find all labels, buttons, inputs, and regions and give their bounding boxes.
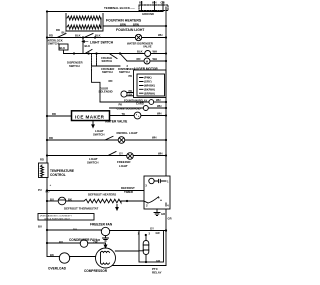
svg-text:LIGHT SWITCH: LIGHT SWITCH [90, 41, 114, 45]
node refrig left [46, 139, 48, 141]
wire fountain light row [47, 37, 135, 39]
svg-text:WH: WH [157, 112, 162, 116]
wire auger row [120, 54, 127, 62]
connector block [59, 44, 68, 50]
ground freezer fan [103, 236, 109, 241]
svg-text:BLK: BLK [85, 44, 91, 48]
svg-text:BK: BK [50, 253, 54, 257]
svg-text:GY: GY [119, 151, 123, 155]
resistor fountain heater 2 [67, 25, 101, 29]
wire lamp to bus [142, 37, 166, 39]
node cube bus [165, 107, 167, 109]
svg-text:WH: WH [156, 98, 161, 102]
node defrost feed [46, 189, 48, 191]
thermostat temperature control [41, 165, 44, 177]
arrow compressor feed [104, 243, 107, 248]
wire heater common [100, 18, 102, 27]
svg-text:BU: BU [59, 240, 63, 244]
svg-text:RD: RD [56, 28, 60, 32]
node freezer bus [165, 154, 167, 156]
svg-text:BU: BU [50, 197, 54, 201]
svg-text:WATER VALVE: WATER VALVE [105, 120, 127, 124]
svg-text:FOUNTAIN HEATERS: FOUNTAIN HEATERS [106, 19, 142, 23]
svg-text:GR: GR [156, 259, 160, 263]
node heater end [126, 200, 128, 202]
switch crusher blade [110, 54, 117, 59]
solenoid fountain [149, 100, 154, 105]
svg-text:CARD: CARD [136, 101, 144, 105]
node condenser [46, 242, 48, 244]
svg-text:BRN: BRN [133, 22, 139, 26]
arrow plug down [92, 122, 94, 128]
wire drop to dispenser row [82, 38, 84, 54]
svg-text:GR: GR [161, 212, 165, 216]
svg-text:TK: TK [122, 112, 126, 116]
temperature control box [39, 163, 49, 178]
wire supply stub GN [162, 2, 164, 12]
svg-text:BK: BK [129, 93, 133, 97]
svg-text:SWITCH: SWITCH [102, 70, 113, 74]
node dispenser a [73, 52, 75, 54]
dispenser switch block outer box [134, 70, 167, 98]
wire solenoid to block [127, 93, 133, 96]
svg-text:BLK: BLK [95, 34, 101, 38]
node auger bus [165, 60, 167, 62]
node dispenser b [95, 52, 97, 54]
svg-text:RD: RD [49, 34, 53, 38]
dashed linkage 2 [96, 54, 98, 66]
svg-text:(BK/WH): (BK/WH) [144, 87, 155, 91]
wire right bus [165, 7, 167, 266]
svg-text:SWITCH: SWITCH [87, 161, 98, 165]
wire cube row from box [110, 107, 144, 109]
thermostat defrost bimetal [58, 197, 66, 205]
svg-text:WH: WH [153, 49, 158, 53]
timer motor [149, 178, 154, 183]
svg-text:FREEZER FAN: FREEZER FAN [90, 222, 113, 226]
motor condenser fan [80, 240, 88, 248]
svg-text:ICE MAKER: ICE MAKER [75, 115, 105, 120]
node fan bus [165, 229, 167, 231]
svg-text:BU: BU [62, 31, 66, 35]
svg-text:RD: RD [109, 79, 113, 83]
ptc pill [143, 241, 149, 255]
node top left [46, 10, 48, 12]
svg-text:(FOR DIAGNOSTIC CONTINUITY: (FOR DIAGNOSTIC CONTINUITY [40, 215, 72, 218]
solenoid door [121, 91, 127, 97]
lamp refrig light [118, 137, 125, 144]
node light blade right [94, 36, 96, 38]
node dispenser c [119, 52, 121, 54]
wire ice maker feed [47, 115, 72, 117]
svg-text:BU: BU [73, 227, 77, 231]
svg-text:(BR/WH): (BR/WH) [144, 91, 155, 95]
svg-text:SOLENOID: SOLENOID [99, 90, 113, 94]
wire cube solenoid row 2 [143, 107, 166, 109]
svg-text:BK: BK [68, 197, 72, 201]
wire freezer light row [47, 155, 127, 157]
node ice maker left [46, 115, 48, 117]
svg-text:(PNK): (PNK) [144, 76, 152, 80]
svg-text:CONTROL: CONTROL [50, 173, 66, 177]
ptc relay box [139, 231, 164, 263]
svg-text:WH: WH [152, 1, 157, 5]
svg-text:PK: PK [129, 74, 133, 78]
wire water valve row [110, 115, 135, 117]
svg-text:SWITCH: SWITCH [48, 42, 59, 46]
svg-text:BU: BU [46, 190, 50, 194]
svg-text:BLK: BLK [137, 49, 143, 53]
node fan left [46, 229, 48, 231]
motor auger [144, 58, 150, 64]
switch interlock blade [57, 34, 66, 38]
wire door solenoid feed [92, 70, 101, 102]
wire top feed [47, 11, 163, 13]
timer switch arm [148, 197, 159, 203]
wire defrost heater row [47, 200, 58, 202]
node drop [82, 36, 84, 38]
valve water [134, 112, 141, 119]
lamp fountain light [135, 34, 141, 40]
ground below timer [154, 209, 160, 216]
defrost timer box [144, 176, 170, 209]
terminal block dashed outline [139, 5, 168, 11]
node ptc bottom [145, 261, 147, 263]
wire cube solenoid row 1 [100, 101, 149, 103]
svg-text:WH: WH [158, 33, 163, 37]
ice maker box [72, 111, 110, 121]
svg-text:DEFROST HEATERS: DEFROST HEATERS [88, 193, 116, 197]
svg-text:RD: RD [49, 136, 53, 140]
svg-text:OVERLOAD: OVERLOAD [48, 267, 67, 271]
wire supply stub WH [154, 2, 156, 12]
svg-text:GY: GY [150, 227, 154, 231]
wire left bus [46, 12, 48, 257]
node defrost heat [46, 200, 48, 202]
svg-text:COMPRESSOR: COMPRESSOR [84, 269, 108, 273]
wire freezer fan row [47, 229, 101, 231]
svg-text:SWITCH: SWITCH [69, 64, 80, 68]
svg-text:BLK: BLK [60, 46, 66, 50]
svg-text:BK: BK [139, 1, 143, 5]
compressor [96, 248, 116, 268]
svg-text:GROUND: GROUND [142, 12, 154, 16]
note box [38, 214, 94, 221]
lamp freezer light [127, 153, 134, 160]
svg-text:GR: GR [156, 231, 160, 235]
svg-text:SWITCH: SWITCH [119, 70, 130, 74]
svg-text:TIMER: TIMER [124, 190, 134, 194]
svg-text:BLK: BLK [75, 34, 81, 38]
node fountain return [165, 25, 167, 27]
fountain heaters box [66, 14, 103, 32]
switch freezer light blade [108, 152, 116, 156]
solenoid cube [143, 106, 148, 111]
dispenser switch block inner box [137, 74, 165, 96]
wire compressor run bottom [113, 265, 166, 267]
wire condenser fan row [47, 242, 80, 244]
svg-text:GR: GR [168, 217, 172, 221]
svg-text:(GRY): (GRY) [144, 80, 152, 84]
wire supply stub BK [141, 2, 143, 12]
svg-text:RELAY: RELAY [152, 271, 162, 275]
svg-text:VALVE: VALVE [143, 45, 152, 49]
svg-text:PK: PK [129, 89, 133, 93]
svg-text:PU: PU [38, 188, 42, 192]
svg-text:LIGHT: LIGHT [119, 164, 128, 168]
node ptc top [145, 234, 147, 236]
node bus bottom [165, 229, 167, 231]
svg-text:(WH/BK): (WH/BK) [144, 84, 155, 88]
svg-text:SWITCH: SWITCH [102, 59, 113, 63]
svg-text:RD: RD [137, 57, 141, 61]
arrow defrost thermostat pointer [116, 205, 118, 211]
wire defrost timer feed [47, 190, 144, 192]
svg-text:CUBE SOLENOID: CUBE SOLENOID [117, 107, 141, 111]
dashed linkage 1 [91, 54, 93, 70]
node light row right [165, 36, 167, 38]
svg-text:+: + [50, 183, 52, 187]
svg-text:DEFROST THERMOSTAT: DEFROST THERMOSTAT [64, 206, 98, 210]
svg-text:RD: RD [52, 112, 56, 116]
svg-text:REFRIG. LIGHT: REFRIG. LIGHT [117, 131, 138, 135]
node refrig bus [165, 139, 167, 141]
switch refrig light blade [105, 136, 113, 140]
svg-text:RD: RD [40, 158, 44, 162]
svg-text:OR: OR [94, 240, 98, 244]
svg-text:FOUNTAIN LIGHT: FOUNTAIN LIGHT [116, 28, 145, 32]
svg-text:SWITCH: SWITCH [93, 133, 104, 137]
wire crusher solenoid row [92, 65, 121, 67]
node dispenser bus [165, 52, 167, 54]
node water valve bus [165, 114, 167, 116]
svg-text:AUGER MOTOR: AUGER MOTOR [134, 67, 159, 71]
svg-text:GN: GN [161, 1, 165, 5]
svg-text:TERMINAL BLOCK-----: TERMINAL BLOCK----- [104, 6, 135, 10]
wire overload row [47, 256, 59, 258]
overload protector [59, 253, 69, 263]
svg-text:WH: WH [152, 136, 157, 140]
arrow light switch pointer [82, 41, 88, 43]
svg-text:CHECK PURPOSES ONLY): CHECK PURPOSES ONLY) [44, 218, 70, 220]
node light row left [46, 36, 48, 38]
wire fountain heater return [103, 25, 166, 27]
node solenoid bus [165, 101, 167, 103]
switch block contacts [140, 78, 144, 94]
svg-text:WH: WH [153, 57, 158, 61]
svg-text:WH: WH [158, 151, 163, 155]
motor freezer fan [101, 227, 109, 235]
valve water dispenser [145, 51, 151, 57]
resistor defrost heater [84, 199, 121, 203]
svg-text:BRN: BRN [120, 22, 126, 26]
resistor fountain heater 1 [67, 16, 101, 20]
svg-text:BU: BU [38, 225, 42, 229]
node freezer left [46, 154, 48, 156]
wire dispenser row [83, 53, 145, 55]
svg-text:WH: WH [157, 104, 162, 108]
wire refrig light row [47, 139, 118, 141]
wire compressor start [115, 250, 139, 252]
switch dispenser blade [85, 50, 92, 54]
switch light blade [84, 34, 93, 38]
